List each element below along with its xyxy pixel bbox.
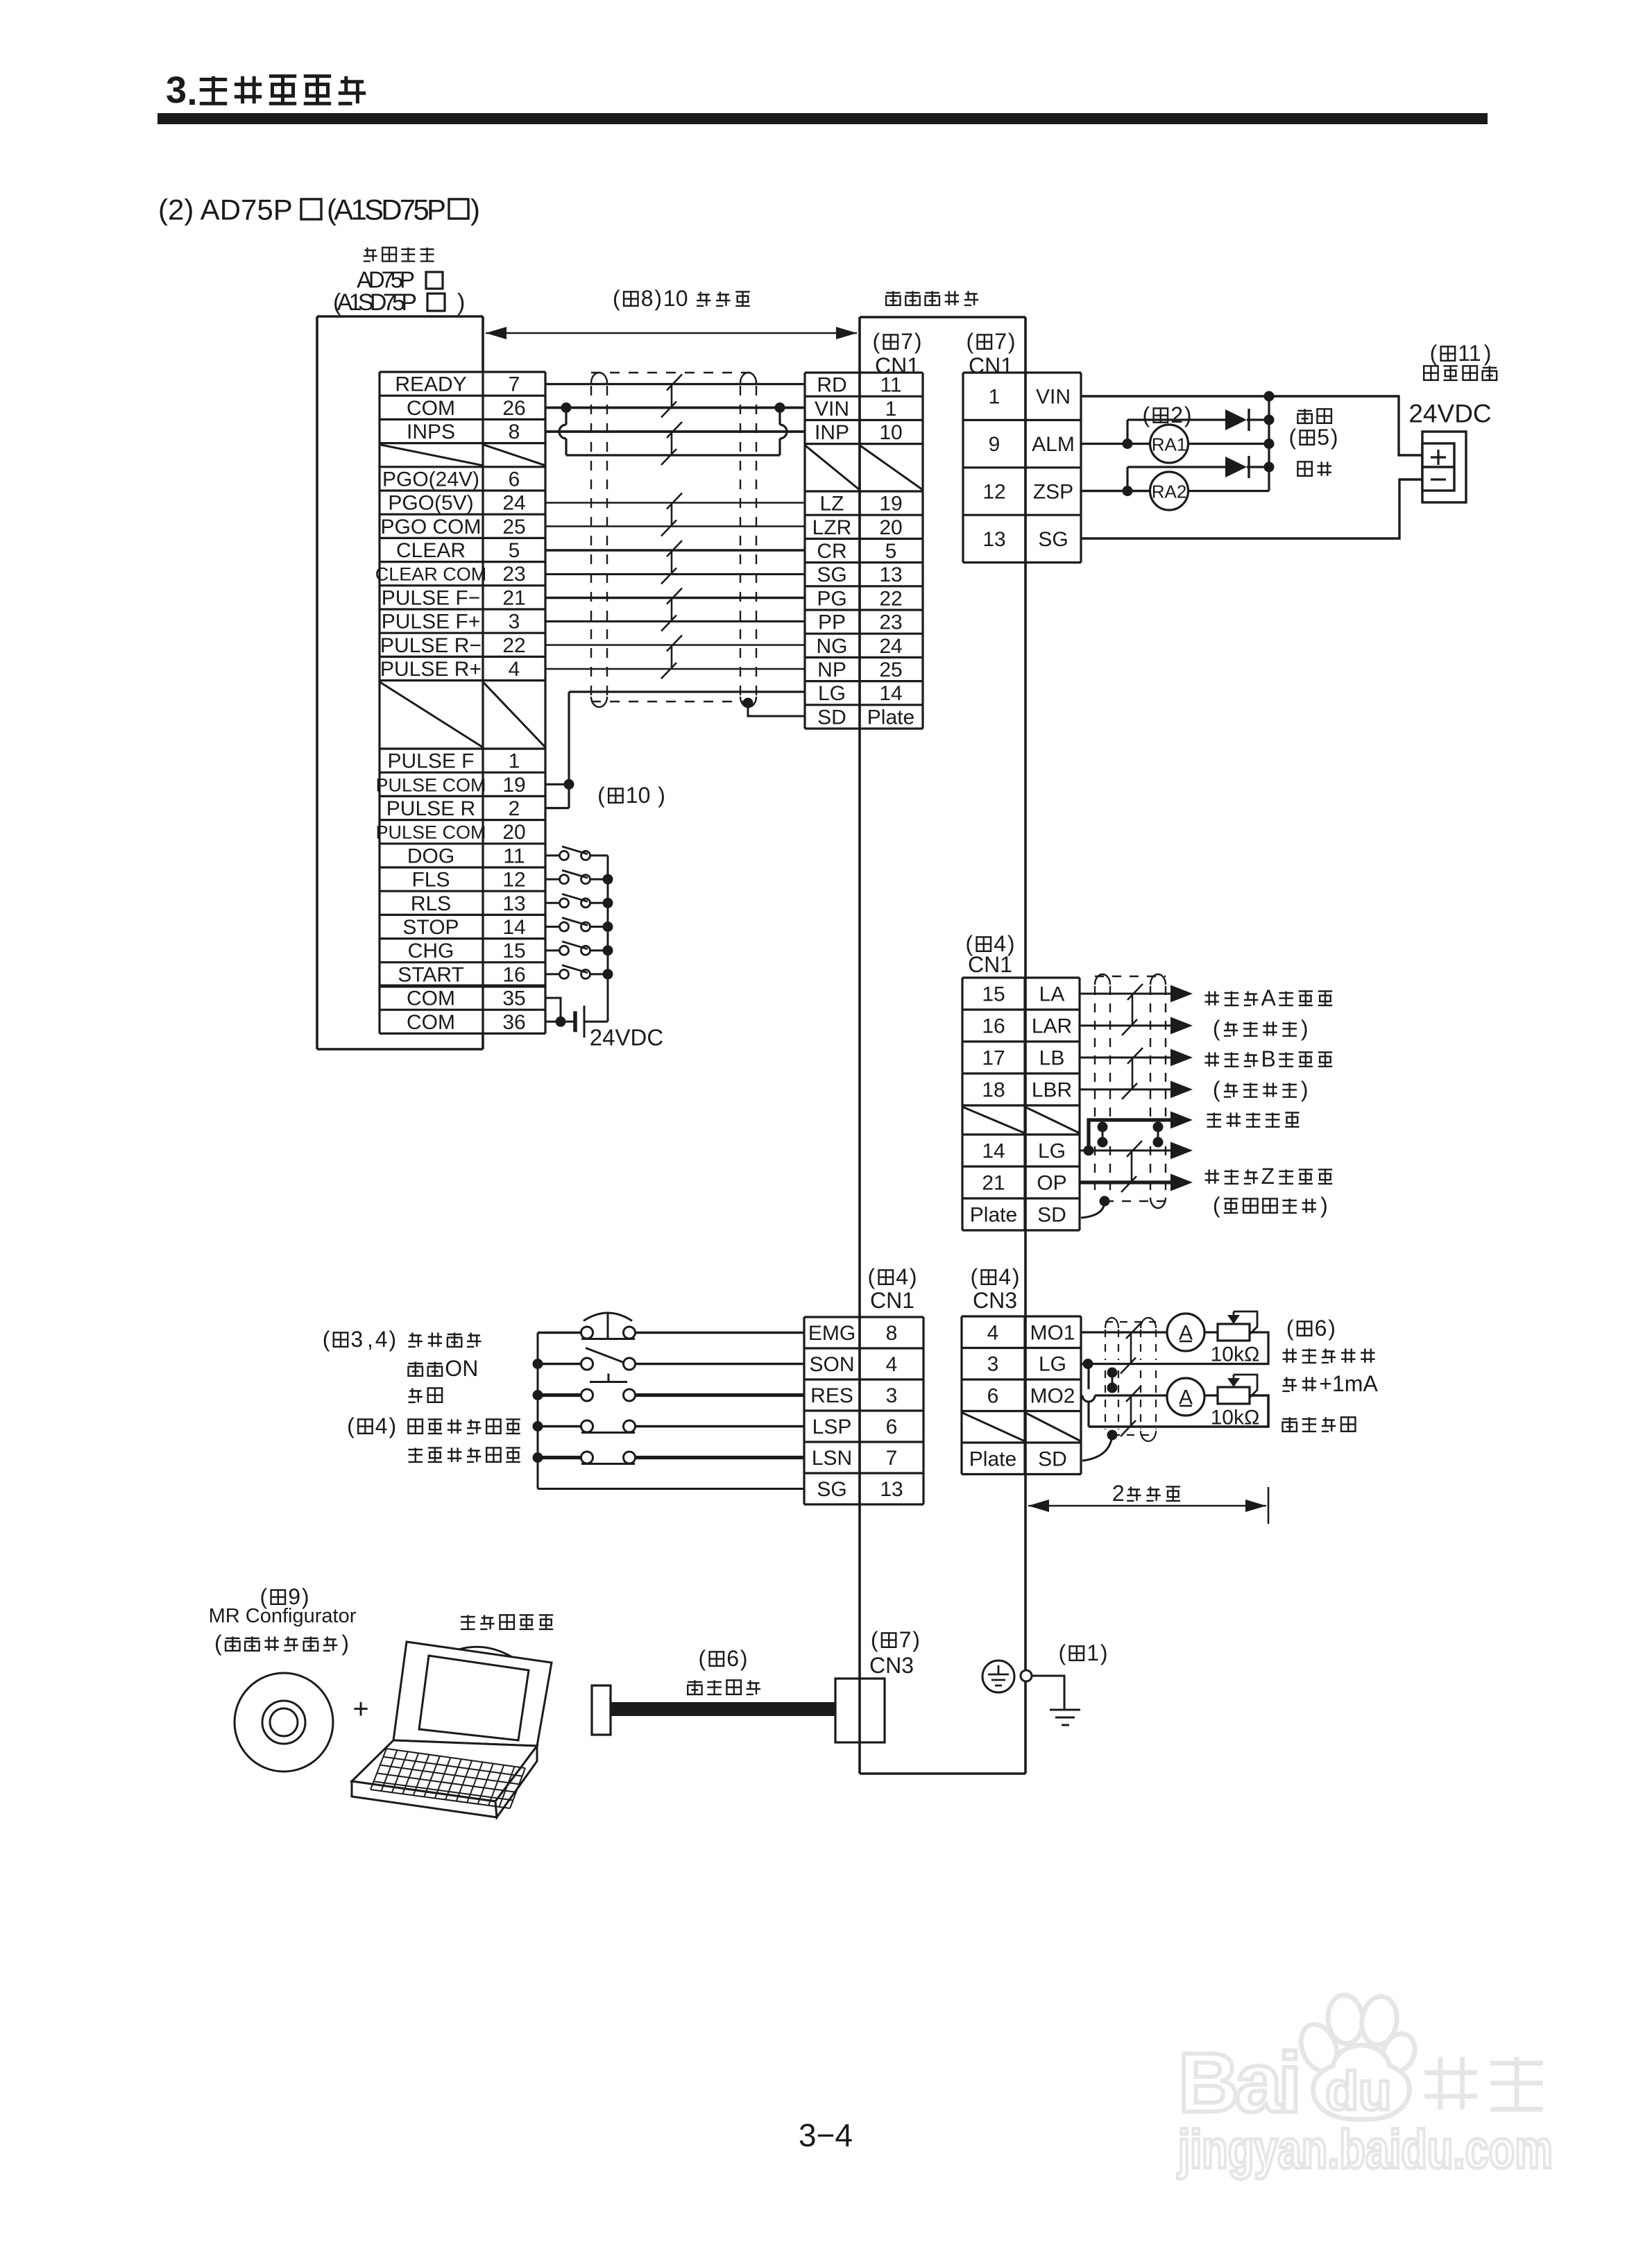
svg-text:(A1SD75P: (A1SD75P: [327, 194, 446, 226]
svg-text:DOG: DOG: [407, 844, 454, 867]
svg-text:COM: COM: [407, 987, 455, 1010]
switch DOG: [545, 854, 559, 856]
label 监视器输出: [1283, 1348, 1297, 1363]
shield drain dot encoder: [1100, 1196, 1110, 1207]
svg-text:LZR: LZR: [812, 516, 852, 539]
ground symbol: [1050, 1710, 1080, 1725]
wire LG(3): [1081, 1363, 1091, 1365]
cable connector CN3: [835, 1679, 885, 1742]
junction dot RLS rail: [603, 898, 613, 908]
positioning module AD75P outline: [317, 316, 483, 1049]
svg-text:AD75P: AD75P: [357, 267, 415, 293]
svg-text:RLS: RLS: [411, 892, 451, 915]
svg-text:A: A: [1261, 985, 1277, 1010]
svg-text:): ): [457, 289, 465, 316]
svg-text:4: 4: [998, 1264, 1011, 1289]
potentiometer 10k 1: [1218, 1324, 1250, 1341]
svg-text:(: (: [1213, 1193, 1220, 1218]
svg-text:(: (: [871, 1627, 878, 1652]
svg-text:3: 3: [987, 1353, 999, 1376]
battery 24VDC: [575, 1005, 608, 1037]
svg-text:22: 22: [502, 634, 525, 657]
svg-text:PULSE R+: PULSE R+: [380, 658, 482, 681]
wire READY(7)-RD(11): [545, 383, 805, 385]
svg-text:START: START: [398, 963, 464, 986]
junction dot ZSP: [1123, 486, 1133, 496]
label 编码器A相脉冲: [1205, 991, 1220, 1005]
svg-text:+: +: [352, 1694, 368, 1724]
svg-text:PG: PG: [817, 587, 846, 610]
svg-text:24: 24: [879, 635, 902, 658]
svg-text:): ): [912, 1627, 920, 1652]
svg-text:20: 20: [879, 516, 902, 539]
switch RES reset: [538, 1393, 581, 1397]
svg-text:ZSP: ZSP: [1033, 481, 1073, 504]
wire SD(Plate) encoder pigtail: [1081, 1201, 1105, 1218]
svg-text:LG: LG: [818, 682, 846, 705]
wire control common: [1089, 1120, 1175, 1150]
svg-text:SG: SG: [817, 1478, 846, 1501]
EMG mushroom button: [581, 1338, 635, 1340]
svg-text:ON: ON: [445, 1356, 478, 1381]
svg-text:4: 4: [886, 1353, 898, 1376]
shield pigtail dots monitor: [1107, 1368, 1118, 1378]
svg-text:CR: CR: [817, 540, 846, 563]
svg-text:NG: NG: [817, 635, 848, 658]
svg-text:24VDC: 24VDC: [590, 1025, 663, 1051]
svg-text:6: 6: [726, 1646, 739, 1671]
svg-text:20: 20: [502, 821, 525, 844]
label 复位: [409, 1388, 423, 1402]
wire LG(14) to PULSE COM/PULSE R: [569, 690, 805, 693]
svg-text:): ): [658, 783, 665, 808]
svg-text:6: 6: [1315, 1316, 1327, 1341]
switch STOP: [545, 926, 559, 928]
svg-text:14: 14: [879, 682, 902, 705]
svg-text:Z: Z: [1261, 1164, 1275, 1189]
switch RLS: [545, 902, 559, 904]
wire PGO(5V)-LZ: [545, 502, 805, 503]
svg-text:SG: SG: [1038, 528, 1068, 551]
wire meter1 loop: [1204, 1331, 1218, 1333]
svg-text:PULSE R: PULSE R: [386, 797, 475, 820]
svg-text:CN1: CN1: [870, 1288, 914, 1313]
junction dot RES: [533, 1390, 543, 1400]
svg-text:LG: LG: [1039, 1353, 1066, 1376]
svg-text:10: 10: [626, 783, 651, 808]
svg-text:35: 35: [502, 987, 525, 1010]
wire LAR encoder A-: [1080, 1025, 1175, 1027]
svg-text:STOP: STOP: [402, 916, 459, 939]
svg-text:23: 23: [502, 563, 525, 586]
LG vertical with hop: [1087, 1402, 1089, 1427]
svg-text:(: (: [347, 1413, 355, 1438]
svg-text:3: 3: [350, 1327, 363, 1352]
watermark baidu paw pad: [1313, 2045, 1409, 2119]
svg-text:12: 12: [982, 481, 1005, 504]
svg-text:EMG: EMG: [808, 1322, 855, 1345]
svg-text:): ): [389, 1327, 396, 1352]
svg-text:CN1: CN1: [968, 952, 1012, 977]
svg-text:24: 24: [502, 492, 525, 515]
left table no-connection diagonal cell: [380, 682, 483, 747]
svg-text:3: 3: [166, 69, 187, 111]
svg-text:Plate: Plate: [867, 706, 914, 729]
svg-text:): ): [1484, 341, 1492, 366]
servo amplifier outline: [860, 317, 1025, 1774]
switch LSP forward stroke end: [538, 1425, 581, 1427]
svg-text:): ): [1184, 402, 1192, 427]
svg-text:): ): [1331, 425, 1338, 450]
label 双向读取: [1283, 1417, 1297, 1432]
wire to ground: [1032, 1676, 1064, 1710]
svg-text:(2) AD75P: (2) AD75P: [158, 194, 293, 226]
left module terminal table (upper rows READY..PULSE R+): [375, 372, 545, 1034]
junction dot LSP: [533, 1421, 543, 1432]
svg-text:7: 7: [901, 329, 913, 354]
svg-text:LSN: LSN: [812, 1447, 852, 1470]
wire COM(36) to battery: [545, 1021, 575, 1023]
external power supply 24VDC box: [1422, 432, 1466, 502]
wire MO2(6) to meter 2 with hop: [1081, 1394, 1082, 1396]
page title 3.信号和接线: [166, 69, 366, 113]
ground terminal circle: [1021, 1670, 1032, 1681]
svg-text:PULSE COM: PULSE COM: [375, 822, 486, 843]
shield pigtail dots left: [1098, 1122, 1108, 1132]
svg-text:SG: SG: [817, 563, 846, 586]
svg-text:): ): [1320, 1193, 1328, 1218]
input switches DOG..START: [545, 847, 613, 1021]
svg-text:25: 25: [502, 516, 525, 538]
wire RA1 to rail: [1188, 443, 1269, 445]
label 零速: [1297, 461, 1311, 476]
wire PULSE R−-NG: [545, 644, 805, 645]
svg-text:LA: LA: [1039, 983, 1065, 1006]
svg-text:SON: SON: [809, 1353, 854, 1376]
servo amp CN1 output table (VIN/ALM/ZSP/SG): [963, 373, 1081, 563]
svg-text:4: 4: [375, 1327, 388, 1352]
svg-text:8: 8: [509, 421, 520, 443]
relay coil RA2: [1150, 472, 1189, 510]
svg-text:36: 36: [502, 1011, 525, 1034]
svg-text:1: 1: [885, 398, 897, 421]
diode D1 branch: [1126, 420, 1128, 444]
LSN closed bar: [581, 1463, 635, 1465]
label 伺服ON: [409, 1361, 423, 1376]
svg-text:INP: INP: [815, 421, 849, 444]
svg-text:15: 15: [502, 940, 525, 962]
svg-text:21: 21: [502, 586, 525, 609]
label 最大+1mA: [1283, 1377, 1297, 1391]
svg-text:(: (: [1142, 402, 1150, 427]
servo monitor table CN3 (MO1..SD): [962, 1316, 1081, 1475]
diode D2 branch: [1126, 467, 1128, 491]
svg-text:2: 2: [509, 797, 520, 820]
svg-text:2: 2: [1170, 402, 1183, 427]
meter A2: [1167, 1378, 1204, 1416]
svg-text:): ): [341, 1631, 349, 1656]
right crossover hop: [778, 408, 781, 425]
switch CHG: [545, 949, 559, 951]
wire SD(Plate) CN3 pigtail: [1082, 1435, 1112, 1461]
communication cable: [611, 1702, 835, 1716]
svg-text:4: 4: [509, 658, 520, 681]
wire SG(13) input: [538, 1488, 804, 1490]
wire LB encoder B+: [1080, 1057, 1175, 1059]
watermark baidu paw toes: [1295, 1994, 1421, 2120]
label 编码器B相脉冲: [1205, 1052, 1220, 1067]
svg-text:18: 18: [982, 1079, 1005, 1102]
svg-text:21: 21: [982, 1172, 1005, 1195]
wire PGO COM-LZR: [545, 525, 805, 527]
svg-text:LB: LB: [1039, 1047, 1065, 1070]
wire RA2 to rail: [1188, 490, 1269, 492]
svg-text:2: 2: [1112, 1481, 1125, 1506]
svg-text:du: du: [1325, 2060, 1391, 2121]
shield drain dot: [743, 698, 753, 708]
junction dot PULSE COM: [564, 779, 574, 790]
switch EMG emergency stop: [538, 1332, 581, 1334]
svg-text:LG: LG: [1038, 1140, 1066, 1163]
CD-ROM disc: [235, 1673, 333, 1772]
svg-text:(: (: [597, 783, 605, 808]
junction dot VIN wire: [1264, 391, 1275, 402]
svg-text:VIN: VIN: [815, 398, 849, 421]
dimension arrow 10米以下: [486, 327, 857, 339]
label 紧急停止: [409, 1332, 423, 1347]
svg-text:7: 7: [509, 373, 520, 396]
svg-text:13: 13: [982, 528, 1005, 551]
svg-text:SD: SD: [1038, 1447, 1067, 1470]
svg-text:15: 15: [982, 983, 1005, 1006]
wire shield-SD(Plate): [748, 703, 805, 716]
svg-text:PULSE COM: PULSE COM: [375, 774, 486, 795]
label 外部电源: [1424, 366, 1438, 380]
svg-text:): ): [1301, 1077, 1309, 1102]
svg-text:6: 6: [509, 468, 520, 491]
svg-text:): ): [654, 286, 662, 311]
svg-text:7: 7: [886, 1447, 898, 1470]
svg-text:1: 1: [509, 750, 520, 773]
wire INPS(8)-INP(10): [545, 430, 805, 433]
svg-text:COM: COM: [407, 1011, 455, 1034]
twisted pair marks encoder cable: [1121, 984, 1143, 1192]
svg-text:(: (: [1430, 341, 1438, 366]
svg-text:RA1: RA1: [1152, 434, 1187, 455]
svg-text:(: (: [872, 329, 880, 354]
svg-text:1: 1: [989, 386, 1000, 409]
svg-text:6: 6: [886, 1416, 898, 1438]
junction dot on VIN wire right: [775, 402, 785, 413]
svg-text:ALM: ALM: [1032, 433, 1075, 456]
relay coil RA1: [1150, 425, 1189, 463]
svg-text:RD: RD: [817, 374, 846, 397]
wire LBR encoder B-: [1080, 1089, 1175, 1091]
svg-text:RES: RES: [810, 1384, 853, 1407]
wire VIN(1) to external supply +: [1081, 396, 1422, 455]
wire PULSE R+-NP: [545, 668, 805, 670]
svg-text:(A1SD75P: (A1SD75P: [333, 289, 417, 316]
svg-text:10: 10: [663, 286, 688, 311]
diode D1: [1225, 409, 1247, 430]
junction dot SON: [533, 1359, 543, 1369]
svg-text:3: 3: [886, 1384, 898, 1407]
SON blade: [586, 1348, 624, 1363]
svg-text:(: (: [698, 1646, 706, 1671]
wire MO1(4) to meter 1: [1081, 1331, 1167, 1333]
watermark 经验: [1424, 2057, 1477, 2109]
svg-text:7: 7: [994, 329, 1007, 354]
shield pigtail dots right: [1153, 1122, 1164, 1132]
svg-text:8: 8: [641, 286, 654, 311]
svg-text:(: (: [867, 1264, 875, 1289]
subtitle (2) AD75P (A1SD75P): [158, 194, 480, 226]
svg-text:(: (: [1288, 425, 1296, 450]
svg-text:(: (: [1213, 1077, 1220, 1102]
wire ZSP(12)-RA2: [1081, 490, 1150, 493]
junction dot RA1 out: [1264, 439, 1275, 449]
svg-text:5: 5: [1317, 425, 1329, 450]
twisted pair marks monitor cable: [1130, 1332, 1132, 1364]
wire PULSE F+-PP: [545, 620, 805, 622]
svg-text:1: 1: [1087, 1640, 1099, 1665]
svg-text:Bai: Bai: [1178, 2035, 1302, 2130]
svg-text:(: (: [1286, 1316, 1294, 1341]
svg-text:COM: COM: [407, 397, 455, 420]
svg-text:(: (: [966, 329, 973, 354]
label 正转行程末端: [409, 1419, 423, 1433]
svg-text:(: (: [613, 286, 620, 311]
wire COM(35) stub: [545, 998, 561, 1021]
svg-text:23: 23: [879, 611, 902, 634]
svg-text:): ): [910, 1264, 917, 1289]
svg-text:): ): [1012, 1264, 1020, 1289]
svg-text:(: (: [1058, 1640, 1066, 1665]
junction dot LG encoder: [1084, 1146, 1094, 1156]
svg-text:LSP: LSP: [812, 1416, 852, 1438]
svg-text:CN3: CN3: [973, 1288, 1017, 1313]
switch SON servo on: [538, 1363, 581, 1365]
svg-text:.: .: [187, 71, 197, 113]
svg-text:INPS: INPS: [407, 421, 455, 443]
svg-text:12: 12: [502, 869, 525, 892]
svg-text:READY: READY: [395, 373, 466, 396]
wire LG encoder common: [1080, 1150, 1175, 1152]
wire stub PULSE COM(19): [545, 783, 569, 785]
label 定位模块 AD75P (A1SD75P): [333, 248, 465, 316]
label 通讯电缆: [688, 1680, 702, 1695]
wire CLEAR COM-SG: [545, 573, 805, 575]
cable connector left: [592, 1685, 611, 1735]
monitor cable shield outline: [1105, 1318, 1156, 1441]
junction dot CHG rail: [603, 945, 613, 956]
svg-text:FLS: FLS: [411, 869, 450, 892]
label 故障: [1297, 409, 1311, 423]
label 控制公共端: [1207, 1112, 1222, 1127]
svg-text:): ): [1100, 1640, 1108, 1665]
svg-text:11: 11: [880, 374, 901, 397]
LSP closed bar: [581, 1432, 635, 1434]
junction dot LSN: [533, 1452, 543, 1463]
svg-text:OP: OP: [1037, 1172, 1066, 1195]
pair return wire COM-VIN lower: [566, 454, 780, 456]
svg-text:CN1: CN1: [969, 353, 1013, 378]
dimension 2米以下: [1028, 1487, 1268, 1524]
svg-text:13: 13: [502, 892, 525, 915]
RES pushbutton plate: [590, 1381, 627, 1383]
svg-text:): ): [1301, 1016, 1309, 1041]
svg-text:LBR: LBR: [1032, 1079, 1072, 1102]
svg-text:,: ,: [367, 1327, 373, 1352]
wire stub PULSE R(2): [545, 807, 569, 809]
svg-text:5: 5: [509, 539, 520, 562]
svg-text:Plate: Plate: [970, 1204, 1017, 1227]
potentiometer 10k 2: [1218, 1387, 1250, 1404]
servo input table CN1 (EMG..SG): [804, 1317, 923, 1504]
shield drain dot CN3: [1107, 1430, 1118, 1441]
svg-text:7: 7: [899, 1627, 912, 1652]
junction dot LG CN3: [1083, 1359, 1093, 1369]
svg-text:11: 11: [503, 844, 525, 867]
svg-text:10: 10: [879, 421, 902, 444]
svg-text:(: (: [1213, 1016, 1220, 1041]
svg-text:(: (: [214, 1631, 222, 1656]
svg-text:PULSE F+: PULSE F+: [382, 611, 481, 634]
encoder shielded cable outline: [1095, 974, 1166, 1208]
svg-text:(: (: [970, 1264, 978, 1289]
junction dot ALM: [1123, 439, 1133, 449]
svg-text:5: 5: [885, 540, 897, 563]
svg-text:14: 14: [502, 916, 525, 939]
svg-text:4: 4: [987, 1321, 999, 1344]
svg-text:RA2: RA2: [1152, 482, 1187, 502]
junction dot START rail: [603, 969, 613, 979]
left crossover hop: [565, 408, 567, 425]
personal computer laptop: [352, 1642, 552, 1817]
junction dot D2 out: [1264, 462, 1275, 473]
svg-text:+1mA: +1mA: [1319, 1371, 1378, 1396]
junction dot D1 out: [1264, 415, 1275, 425]
svg-text:4: 4: [896, 1264, 908, 1289]
svg-text:): ): [1008, 329, 1016, 354]
svg-text:LZ: LZ: [819, 493, 844, 516]
protective earth circle: [982, 1661, 1014, 1692]
control switch rail: [537, 1333, 539, 1489]
svg-text:22: 22: [879, 587, 902, 610]
switch LSN reverse stroke end: [538, 1456, 581, 1459]
svg-text:B: B: [1261, 1046, 1276, 1071]
svg-text:14: 14: [982, 1140, 1005, 1163]
svg-text:11: 11: [1458, 341, 1481, 366]
svg-text:9: 9: [989, 433, 1000, 456]
label 伺服放大器: [886, 291, 901, 305]
svg-text:CHG: CHG: [408, 940, 454, 962]
switch common rail: [607, 856, 609, 1021]
label 编码器Z相脉冲: [1205, 1169, 1220, 1184]
svg-text:10kΩ: 10kΩ: [1211, 1343, 1260, 1366]
svg-text:PGO(24V): PGO(24V): [382, 468, 479, 491]
svg-text:26: 26: [502, 397, 525, 420]
svg-text:16: 16: [982, 1015, 1005, 1038]
wire PULSE F−-PG: [545, 597, 805, 600]
svg-text:MR Configurator: MR Configurator: [209, 1605, 357, 1627]
relay output rail: [1268, 396, 1270, 491]
wire COM(26)-VIN(1): [545, 407, 805, 409]
svg-text:jingyan.baidu.com: jingyan.baidu.com: [1177, 2118, 1553, 2180]
svg-text:PGO COM: PGO COM: [380, 516, 481, 538]
junction dot COM36: [556, 1017, 566, 1027]
shielded cable outline (note8 cable): [591, 373, 756, 707]
